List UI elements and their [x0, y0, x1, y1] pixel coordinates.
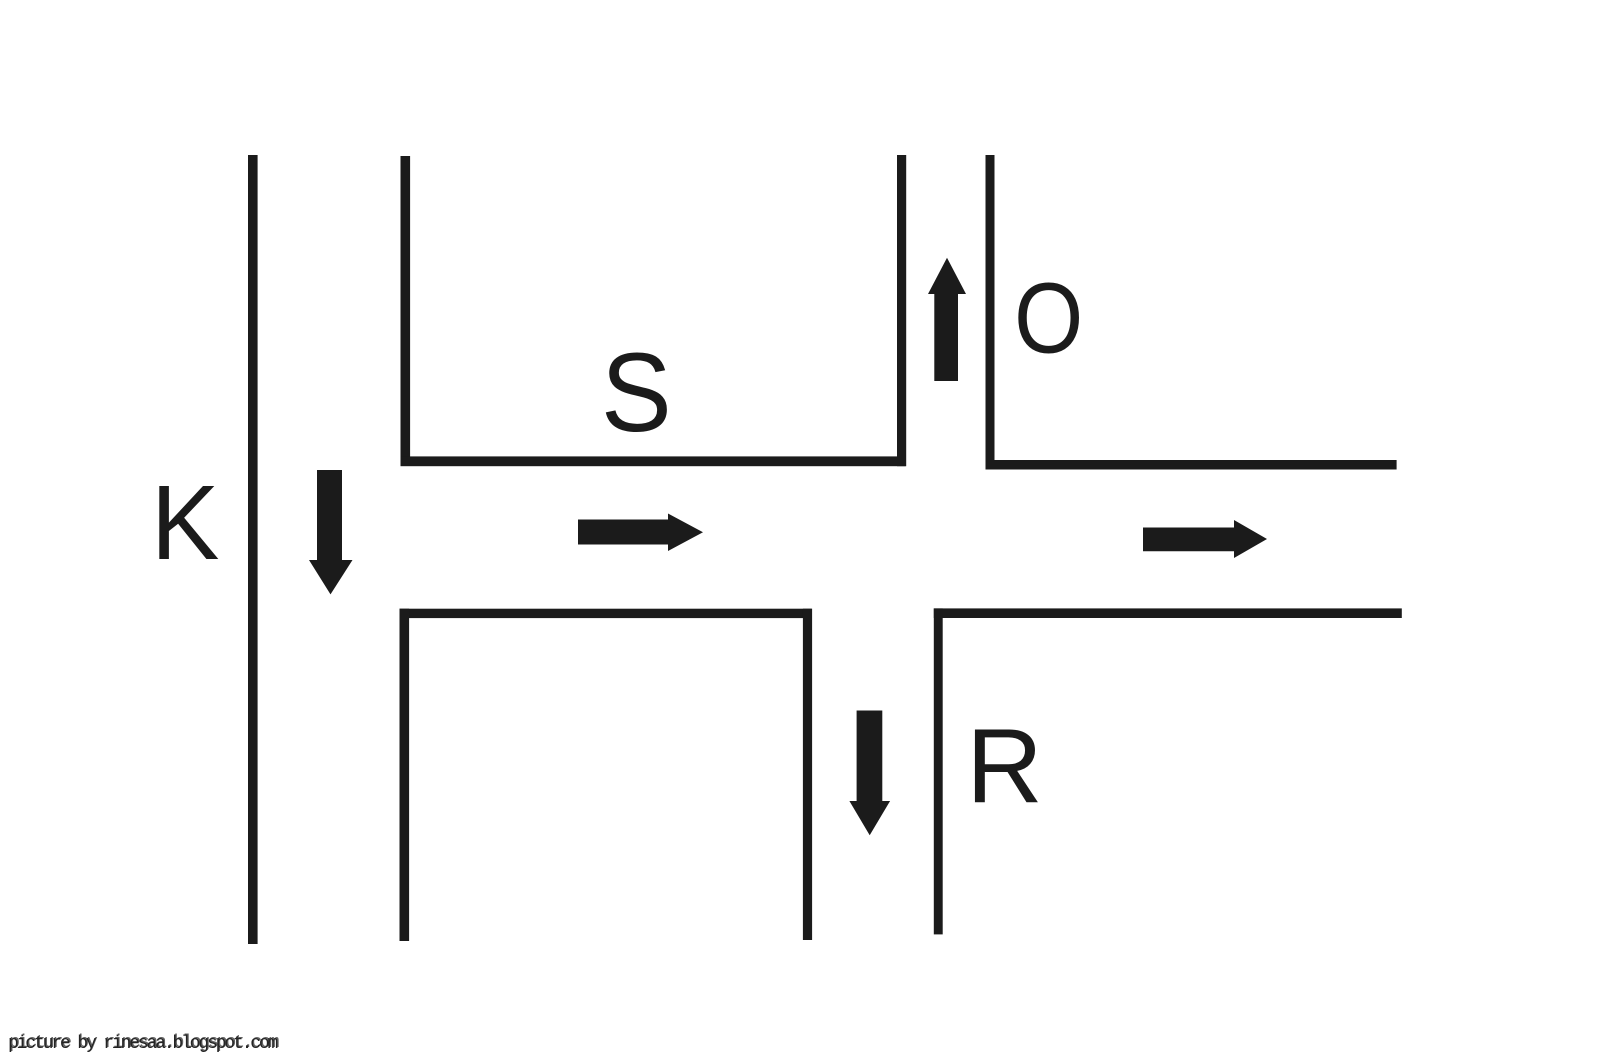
svg-text:O: O: [1014, 263, 1083, 375]
wire : S-block bottom horizontal: [401, 456, 906, 466]
wire : S-block left vertical: [401, 156, 411, 466]
wire : O-block bottom horizontal: [986, 460, 1397, 470]
wire : bottom-right block left vertical: [934, 608, 943, 934]
arrow right (middle): [578, 514, 703, 552]
wire : bottom-left block left vertical: [400, 609, 410, 941]
wire : O-block left vertical: [986, 155, 995, 470]
svg-text:K: K: [151, 464, 220, 583]
arrow up (top middle): [928, 258, 966, 381]
svg-text:picture by rinesaa.blogspot.co: picture by rinesaa.blogspot.com: [8, 1034, 278, 1054]
wire : S-block right vertical: [897, 155, 906, 466]
wire : bottom-left block right vertical: [803, 609, 812, 940]
arrow down (bottom middle): [849, 711, 890, 836]
wire : left vertical road line (K street): [248, 155, 258, 944]
arrow down (left, under K crossing): [309, 470, 353, 594]
svg-text:S: S: [601, 330, 672, 455]
wire : bottom-right block top horizontal: [934, 608, 1402, 618]
arrow right (far right): [1143, 520, 1267, 558]
wire : bottom-left block top horizontal: [400, 609, 812, 618]
svg-text:R: R: [966, 708, 1043, 826]
